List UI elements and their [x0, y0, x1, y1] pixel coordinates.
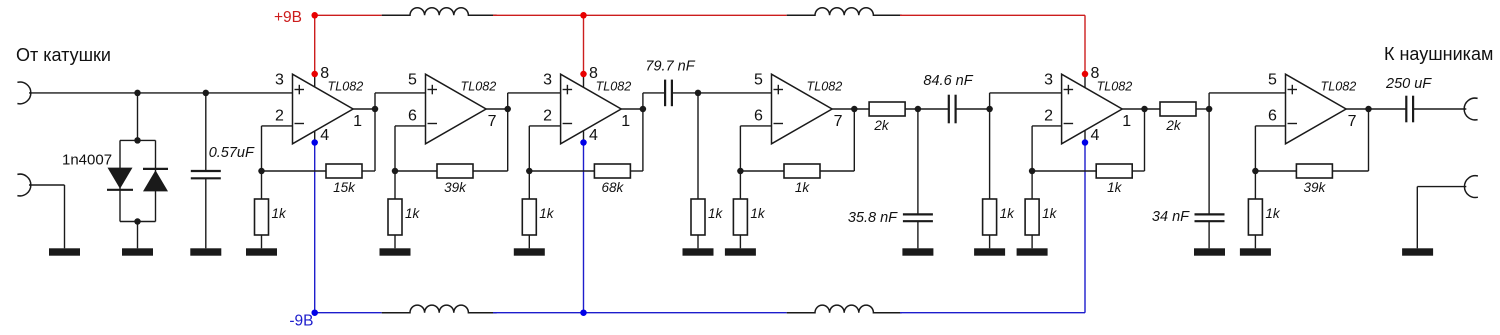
wire inv to R9 — [740, 170, 784, 172]
capacitor C6 250uF — [1405, 96, 1407, 123]
wire inv to R2 — [262, 170, 327, 172]
wire -9V rail segment 1 — [315, 312, 382, 314]
wire C4 to ground — [917, 221, 919, 248]
svg-text:8: 8 — [589, 65, 598, 82]
resistor R8 1k — [733, 199, 747, 235]
ground at x=1209.5 — [1194, 248, 1225, 255]
ground at x=1032.1 — [1017, 248, 1048, 255]
wire U3A out — [1122, 108, 1160, 110]
wire +9V drop to U2 pin8 — [583, 15, 585, 74]
wire U2A out — [621, 108, 643, 110]
wire J4 to ground — [1417, 186, 1466, 188]
svg-text:1k: 1k — [1107, 180, 1123, 195]
wire diode box left — [119, 140, 121, 221]
resistor R2 15k — [326, 164, 362, 178]
svg-text:К наушникам: К наушникам — [1384, 44, 1493, 64]
svg-text:4: 4 — [320, 127, 329, 144]
node U2B out — [851, 106, 858, 113]
wire inv to R1 — [261, 171, 263, 199]
svg-text:TL082: TL082 — [328, 80, 364, 94]
wire R9 to out — [820, 170, 854, 172]
connector output J3 (signal) — [1464, 98, 1477, 120]
wire C1 to ground — [205, 178, 207, 248]
node U2A inv — [526, 168, 533, 175]
node input/diodes — [134, 90, 141, 97]
wire node riser to U3A — [989, 93, 991, 109]
connector input J1 (signal) — [17, 82, 30, 104]
svg-text:4: 4 — [1091, 127, 1100, 144]
op-amp U2A (TL082) — [561, 74, 622, 144]
wire inv to R16 — [1255, 170, 1296, 172]
wire R1 to ground — [261, 235, 263, 248]
svg-text:5: 5 — [754, 72, 763, 89]
ground at x=261.5 — [246, 248, 277, 255]
wire node to R6 — [697, 93, 699, 199]
resistor R1 1k — [255, 199, 269, 235]
svg-text:-9В: -9В — [289, 313, 313, 330]
svg-text:TL082: TL082 — [1097, 80, 1133, 94]
capacitor C1 0.57uF — [191, 170, 221, 172]
svg-text:8: 8 — [320, 65, 329, 82]
wire R16 to out — [1332, 170, 1368, 172]
resistor R14 2k — [1160, 102, 1196, 116]
wire node to R11 — [989, 109, 991, 199]
svg-text:1: 1 — [1122, 113, 1131, 130]
wire diode drop — [137, 93, 139, 140]
capacitor C2 79.7nF — [664, 80, 666, 107]
resistor R10 2k — [869, 102, 905, 116]
svg-text:2: 2 — [1044, 108, 1053, 125]
wire U3B pin6 — [1255, 125, 1285, 127]
resistor R9 1k — [784, 164, 820, 178]
inductor L2 (+9V rail) — [787, 8, 902, 16]
wire +9V rail segment 1 — [315, 14, 382, 16]
svg-text:+9В: +9В — [274, 9, 302, 26]
wire +9V drop to U3 pin8 — [1084, 15, 1086, 74]
wire U2B out — [832, 108, 869, 110]
svg-text:84.6 nF: 84.6 nF — [923, 73, 973, 89]
node U1B out — [504, 106, 511, 113]
wire +9V drop to U1 pin8 — [314, 15, 316, 74]
wire U3B out to C6 — [1369, 108, 1407, 110]
capacitor C4 35.8nF — [903, 213, 933, 215]
wire U1A to U1B — [375, 92, 426, 94]
wire inv to R3 — [394, 171, 396, 199]
op-amp U1B (TL082) — [426, 74, 487, 144]
ground at x=529.3 — [514, 248, 545, 255]
svg-text:15k: 15k — [333, 180, 356, 195]
wire R12 to ground — [1031, 235, 1033, 248]
diode D2 (1n4007, cathode up) — [143, 170, 168, 191]
svg-text:7: 7 — [834, 113, 843, 130]
wire R2 to out — [362, 170, 375, 172]
svg-text:1k: 1k — [539, 206, 555, 221]
svg-text:68k: 68k — [602, 180, 625, 195]
wire U3B out — [1346, 108, 1368, 110]
node R10/C3 — [915, 106, 922, 113]
wire inv to R12 — [1031, 171, 1033, 199]
wire U1A out — [353, 108, 375, 110]
wire R15 to ground — [1254, 235, 1256, 248]
ground at x=1417.6 — [1402, 248, 1433, 255]
svg-text:3: 3 — [275, 72, 284, 89]
ground at x=1255.4 — [1240, 248, 1271, 255]
inductor L3 (-9V rail) — [382, 305, 497, 313]
node after C3 — [986, 106, 993, 113]
svg-text:3: 3 — [1044, 72, 1053, 89]
connector output J4 (return) — [1464, 176, 1477, 198]
op-amp U2B (TL082) — [772, 74, 833, 144]
wire R5 to ground — [528, 235, 530, 248]
svg-text:35.8 nF: 35.8 nF — [848, 210, 898, 226]
wire inv to R5 — [528, 171, 530, 199]
wire inv to R7 — [529, 170, 594, 172]
node diode box top — [134, 137, 141, 144]
wire R7 to out — [630, 170, 643, 172]
svg-text:1k: 1k — [1000, 206, 1016, 221]
resistor R16 39k — [1296, 164, 1332, 178]
wire -9V rise to U2 pin4 — [583, 143, 585, 313]
wire input to U1 pin3 — [29, 92, 293, 94]
wire +9V rail segment 2 — [493, 14, 787, 16]
svg-text:39k: 39k — [444, 180, 467, 195]
svg-text:8: 8 — [1091, 65, 1100, 82]
node U2A out — [640, 106, 647, 113]
svg-text:7: 7 — [488, 113, 497, 130]
wire R13 to out — [1132, 170, 1144, 172]
wire diode box right — [155, 140, 157, 221]
junction -9V at U1 — [311, 309, 318, 316]
wire diode box top — [120, 139, 156, 141]
node U3A out — [1141, 106, 1148, 113]
svg-text:7: 7 — [1348, 113, 1357, 130]
ground at x=989.6 — [974, 248, 1005, 255]
wire U1A out riser — [374, 93, 376, 109]
inductor L4 (-9V rail) — [787, 305, 902, 313]
op-amp U3A (TL082) — [1062, 74, 1123, 144]
junction +9V at U2 — [580, 12, 587, 18]
wire R3 to ground — [394, 235, 396, 248]
svg-text:TL082: TL082 — [1321, 80, 1357, 94]
svg-text:6: 6 — [754, 108, 763, 125]
resistor R12 1k — [1025, 199, 1039, 235]
resistor R15 1k — [1248, 199, 1262, 235]
wire U2A out riser — [642, 93, 644, 109]
node U1A out — [372, 106, 379, 113]
svg-text:1k: 1k — [405, 206, 421, 221]
wire node riser to U3B — [1208, 93, 1210, 109]
wire U1B out riser — [507, 93, 509, 109]
svg-text:1k: 1k — [272, 206, 288, 221]
svg-text:2: 2 — [543, 108, 552, 125]
svg-text:2k: 2k — [1165, 118, 1182, 133]
op-amp U1A (TL082) — [293, 74, 354, 144]
wire inv to R13 — [1032, 170, 1096, 172]
wire diode box bottom — [120, 221, 156, 223]
wire node to C4 — [917, 109, 919, 214]
svg-text:1k: 1k — [795, 180, 811, 195]
inductor L1 (+9V rail) — [382, 8, 497, 16]
node U3B out — [1365, 106, 1372, 113]
wire -9V rise to U1 pin4 — [314, 143, 316, 313]
wire R11 to ground — [989, 235, 991, 248]
ground at x=395 — [380, 248, 411, 255]
wire diodes to ground — [137, 222, 139, 249]
node U2B inv — [737, 168, 744, 175]
node U3A inv — [1029, 168, 1036, 175]
svg-text:TL082: TL082 — [596, 80, 632, 94]
wire R4 to out — [473, 170, 508, 172]
wire +9V rail segment 3 — [900, 14, 1085, 16]
wire R8 to ground — [739, 235, 741, 248]
wire U2A to C2 — [643, 92, 665, 94]
op-amp U3B (TL082) — [1286, 74, 1347, 144]
svg-text:2: 2 — [275, 108, 284, 125]
svg-text:4: 4 — [589, 127, 598, 144]
ground at x=698 — [683, 248, 714, 255]
svg-text:0.57uF: 0.57uF — [209, 145, 255, 161]
resistor R5 1k — [522, 199, 536, 235]
wire -9V rail segment 2 — [493, 312, 787, 314]
wire C6 to output — [1413, 108, 1466, 110]
junction +9V at U1 — [311, 12, 318, 18]
wire -9V rise to U3 pin4 — [1084, 143, 1086, 313]
node U1A inv — [258, 168, 265, 175]
junction -9V at U2 — [580, 309, 587, 316]
wire inv to R8 — [739, 171, 741, 199]
wire R6 to ground — [697, 235, 699, 248]
wire U1B to U2A — [508, 92, 561, 94]
svg-text:TL082: TL082 — [807, 80, 843, 94]
svg-text:1k: 1k — [1042, 206, 1058, 221]
connector input J2 (return) — [17, 174, 30, 196]
wire J2 to ground — [29, 184, 65, 186]
ground at x=205.8 — [190, 248, 221, 255]
ground at x=917.9 — [902, 248, 933, 255]
node after C2 — [695, 90, 702, 97]
wire U1B pin6 — [395, 125, 426, 127]
wire inv to R15 — [1254, 171, 1256, 199]
svg-text:От катушки: От катушки — [16, 45, 111, 65]
svg-text:1: 1 — [621, 113, 630, 130]
ground at x=740.4 — [725, 248, 756, 255]
node R14/C5 — [1206, 106, 1213, 113]
wire C1 top — [205, 93, 207, 171]
resistor R11 1k — [983, 199, 997, 235]
wire U2B pin6 — [740, 125, 771, 127]
svg-text:34 nF: 34 nF — [1152, 209, 1190, 225]
wire U2A pin2 — [529, 125, 560, 127]
svg-text:1: 1 — [353, 113, 362, 130]
node diode box bottom — [134, 218, 141, 225]
resistor R7 68k — [594, 164, 630, 178]
wire C2 to U2B — [672, 92, 772, 94]
svg-text:3: 3 — [543, 72, 552, 89]
ground at x=64.5 — [49, 248, 80, 255]
resistor R13 1k — [1096, 164, 1132, 178]
svg-text:2k: 2k — [873, 118, 890, 133]
svg-text:1k: 1k — [1265, 206, 1281, 221]
ground at x=137.5 — [122, 248, 153, 255]
wire R10 to node — [905, 108, 948, 110]
wire U3A pin2 — [1032, 125, 1062, 127]
svg-text:6: 6 — [1268, 108, 1277, 125]
svg-text:5: 5 — [1268, 72, 1277, 89]
svg-text:1n4007: 1n4007 — [62, 152, 112, 169]
svg-text:1k: 1k — [708, 206, 724, 221]
capacitor C3 84.6nF — [948, 95, 950, 124]
node input/C1 — [203, 90, 210, 97]
resistor R4 39k — [437, 164, 473, 178]
svg-text:250 uF: 250 uF — [1385, 76, 1432, 92]
svg-text:5: 5 — [408, 72, 417, 89]
svg-text:TL082: TL082 — [461, 80, 497, 94]
wire R14 to node — [1196, 108, 1209, 110]
svg-text:1k: 1k — [750, 206, 766, 221]
diode D1 (1n4007, cathode down) — [108, 168, 133, 189]
node U1B inv — [392, 168, 399, 175]
wire U1B out — [486, 108, 508, 110]
svg-text:79.7 nF: 79.7 nF — [645, 59, 695, 75]
capacitor C5 34nF — [1195, 213, 1225, 215]
wire node to C5 — [1208, 109, 1210, 214]
wire -9V rail segment 3 — [900, 312, 1085, 314]
svg-text:39k: 39k — [1304, 180, 1327, 195]
wire C5 to ground — [1208, 221, 1210, 248]
node U3B inv — [1252, 168, 1259, 175]
wire inv to R4 — [395, 170, 437, 172]
svg-text:6: 6 — [408, 108, 417, 125]
resistor R3 1k — [388, 199, 402, 235]
resistor R6 1k — [691, 199, 705, 235]
wire U1A pin2 — [262, 125, 293, 127]
wire C3 to node — [956, 108, 990, 110]
